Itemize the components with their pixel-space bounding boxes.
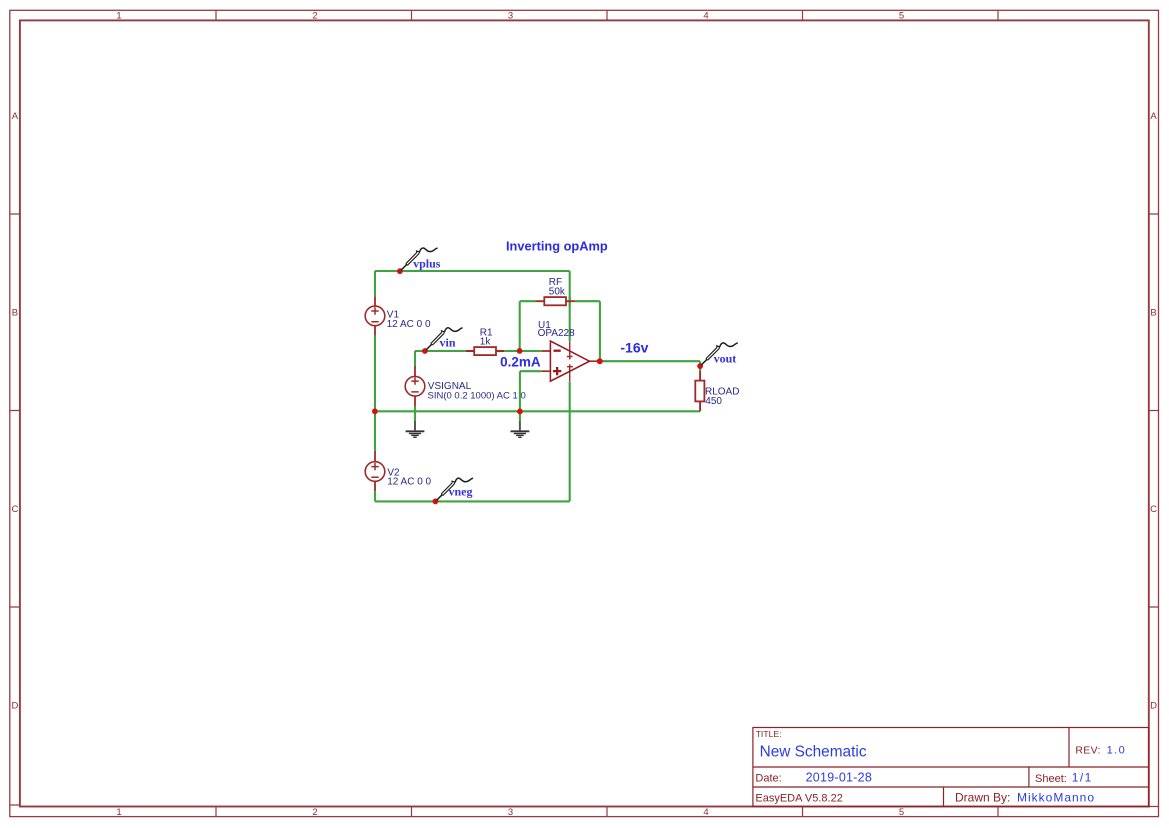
svg-text:C: C [1150, 504, 1157, 515]
svg-text:New Schematic: New Schematic [760, 744, 867, 761]
svg-text:-16v: -16v [620, 339, 648, 355]
svg-text:3: 3 [508, 807, 513, 818]
svg-text:2: 2 [312, 807, 317, 818]
svg-text:B: B [1150, 308, 1156, 319]
svg-text:Sheet:: Sheet: [1035, 773, 1067, 785]
svg-text:D: D [11, 701, 18, 712]
svg-text:B: B [12, 308, 18, 319]
svg-text:1.0: 1.0 [1107, 745, 1127, 757]
svg-text:Inverting opAmp: Inverting opAmp [506, 239, 608, 254]
svg-text:2: 2 [312, 11, 317, 22]
svg-text:A: A [1150, 111, 1157, 122]
svg-text:TITLE:: TITLE: [756, 729, 782, 739]
svg-text:vplus: vplus [413, 257, 441, 271]
svg-text:A: A [12, 111, 19, 122]
svg-text:D: D [1150, 701, 1157, 712]
svg-text:SIN(0 0.2 1000) AC 1 0: SIN(0 0.2 1000) AC 1 0 [428, 391, 526, 402]
svg-text:C: C [11, 504, 18, 515]
svg-text:vin: vin [440, 335, 456, 349]
svg-text:4: 4 [703, 807, 708, 818]
svg-text:Drawn By:: Drawn By: [955, 791, 1010, 805]
svg-text:50k: 50k [549, 287, 566, 298]
svg-text:vout: vout [714, 351, 737, 365]
svg-text:1: 1 [116, 11, 121, 22]
svg-text:MikkoManno: MikkoManno [1017, 791, 1095, 805]
svg-text:0.2mA: 0.2mA [500, 355, 541, 370]
svg-text:12 AC 0 0: 12 AC 0 0 [387, 319, 431, 330]
svg-text:1: 1 [116, 807, 121, 818]
svg-text:Date:: Date: [755, 772, 781, 784]
svg-text:1k: 1k [480, 337, 492, 348]
svg-text:5: 5 [899, 807, 904, 818]
svg-text:2019-01-28: 2019-01-28 [806, 770, 872, 784]
svg-text:4: 4 [703, 11, 708, 22]
svg-text:3: 3 [508, 11, 513, 22]
svg-text:450: 450 [705, 396, 722, 407]
svg-text:REV:: REV: [1075, 745, 1100, 757]
svg-text:12 AC 0 0: 12 AC 0 0 [387, 476, 431, 487]
svg-text:5: 5 [899, 11, 904, 22]
svg-text:vneg: vneg [449, 484, 473, 498]
svg-text:EasyEDA V5.8.22: EasyEDA V5.8.22 [755, 793, 842, 805]
svg-text:1/1: 1/1 [1072, 770, 1093, 784]
svg-text:OPA228: OPA228 [538, 328, 575, 339]
